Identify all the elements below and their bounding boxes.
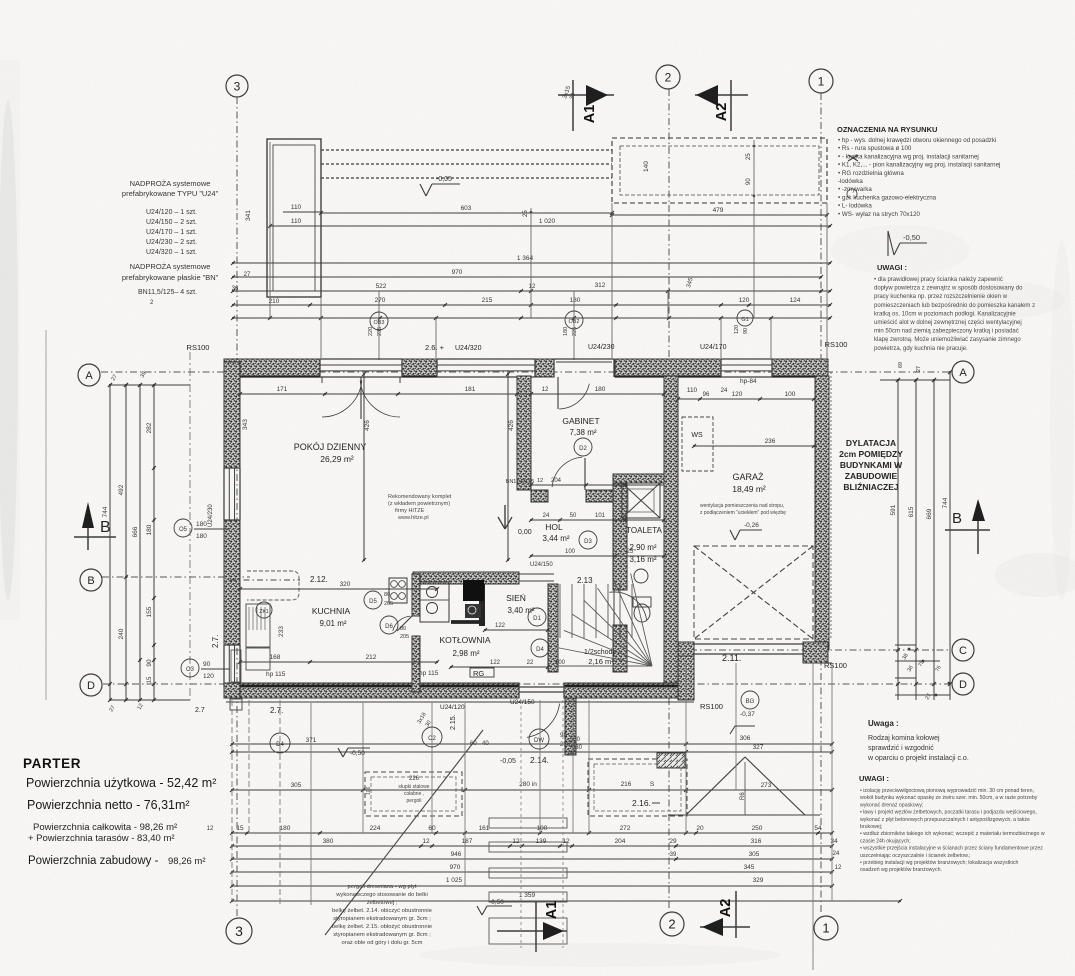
door gabinet top opening: [554, 358, 614, 360]
dylatacja gap line: [830, 372, 832, 640]
terrace steps: [489, 818, 567, 828]
G5 bubble left: [174, 519, 192, 537]
level -0,50 bottom: [487, 905, 512, 907]
double door swing pokoj: [360, 377, 362, 419]
garage step below: [678, 656, 694, 700]
garage bottom corner right: [803, 642, 828, 663]
interior wall pokoj/gabinet: [517, 376, 531, 490]
left dim vertical 282/180/155/90: [153, 385, 155, 700]
WS shaft: [682, 417, 713, 471]
C3 bubble left: [181, 659, 199, 677]
scan smudge patches: [945, 282, 1065, 318]
door kuchnia-kotlownia swing: [397, 616, 412, 631]
left tiny ticks bottom: [110, 699, 190, 701]
section arrow A2 top: [695, 94, 748, 96]
right B arrow: [972, 499, 985, 521]
OB3 bubble: [370, 312, 388, 330]
axis A horizontal grid line: [101, 371, 952, 373]
extra top vertical refs: [320, 297, 322, 358]
section arrow A1 bottom: [535, 902, 537, 952]
top dim line 1364: [233, 262, 830, 264]
door toaleta swing: [613, 590, 615, 625]
right bottom tick lines: [895, 644, 916, 646]
left margin dash line: [189, 352, 191, 700]
bottom wall outer face line: [226, 701, 694, 703]
entrance door swing: [527, 704, 560, 738]
left tiny ticks top: [110, 384, 190, 386]
axis 3 top marker: [226, 75, 248, 97]
left dim vertical 492/240: [125, 385, 127, 700]
interior wall kotlownia/kuchnia lower: [412, 636, 420, 692]
garage dims: [678, 398, 814, 400]
interior wall kotlownia/kuchnia upper: [412, 574, 420, 616]
level flag -0,50: [900, 242, 927, 244]
kitchen counter dashed: [247, 571, 299, 600]
outer wall bottom band left: [240, 683, 519, 698]
bottom vertical refs: [279, 700, 281, 905]
stairs steps: [559, 584, 561, 638]
axis 3 bottom marker: [226, 918, 252, 944]
top dim line 970: [233, 276, 821, 278]
garage right wall: [815, 376, 829, 650]
outer wall left lower corner: [224, 686, 240, 698]
window left 2: [224, 644, 240, 646]
top dim line 270 215 180: [233, 304, 830, 306]
outer wall bottom band right: [564, 683, 682, 698]
top dim line 603: [321, 212, 612, 214]
kotlownia counter: [420, 582, 449, 622]
wc toilet: [633, 597, 651, 607]
bottom dim row 1025: [232, 885, 832, 887]
chimney block top-left: [267, 139, 321, 297]
left dim vertical 666: [139, 385, 141, 700]
pergola rect right: [588, 759, 687, 816]
section arrow A2 bottom: [735, 891, 737, 938]
outer wall top segment 1: [224, 359, 320, 377]
outer wall bottom left piece: [224, 683, 240, 698]
garage bottom outer line: [803, 662, 832, 664]
top dim line 522 312: [233, 290, 830, 292]
garage cross dashed: [694, 546, 813, 639]
outer wall top segment 3: [535, 359, 554, 377]
sien black wall: [479, 584, 485, 626]
lintel over hol opening: [519, 573, 554, 575]
outer wall top segment 2: [402, 359, 437, 377]
terrace dotted edge lines: [321, 149, 612, 151]
corner step detail: [230, 699, 242, 710]
left B arrow: [82, 502, 94, 528]
stairs fan: [557, 665, 652, 667]
sien dims: [485, 629, 548, 631]
bottom dim 305/280/216: [232, 789, 832, 791]
roof triangle right: [686, 757, 745, 815]
entrance door opening: [519, 686, 564, 688]
top wall interior face: [224, 375, 320, 377]
axis 2 top marker: [656, 65, 680, 89]
left margin line: [45, 330, 47, 700]
leader diagonal: [325, 730, 483, 935]
D4 bubble bottom: [270, 733, 290, 753]
axis B left marker: [80, 569, 102, 591]
axis 1 bottom marker: [814, 916, 838, 940]
axis 1 top marker: [809, 69, 833, 93]
top dim line 1020: [270, 225, 830, 227]
pokoj interior dims: [240, 393, 664, 395]
-0,50 flag mid: [348, 747, 370, 749]
axis D left marker: [80, 674, 102, 696]
axis D right marker: [952, 673, 974, 695]
entry arrow 0.00: [504, 505, 506, 529]
kitchen hob: [389, 578, 407, 603]
C2 bubble bottom: [422, 727, 442, 747]
garage door opening bottom: [694, 643, 803, 645]
dashed slab top-right: [612, 138, 827, 203]
axis A left marker: [78, 364, 100, 386]
terrace edge vertical line: [812, 663, 814, 970]
bottom dim row 970: [232, 871, 832, 873]
axis D horizontal grid line: [103, 683, 951, 685]
boiler black: [463, 580, 484, 601]
kitchen cabinets: [246, 604, 270, 647]
interior wall toaleta left upper: [613, 483, 627, 590]
right dims verticals: [897, 380, 899, 700]
door swing gabinet: [557, 377, 559, 409]
washbasin: [634, 569, 648, 583]
D5 bubble kuchnia: [364, 591, 382, 609]
axis 1 vertical grid line: [820, 93, 822, 912]
interior wall gabinet bottom right: [586, 490, 625, 502]
axis 3 vertical grid line: [236, 97, 238, 917]
shower: [622, 483, 660, 518]
sien/schody wall: [548, 584, 558, 672]
outer wall left mid: [224, 520, 240, 645]
vertical ref lines top: [269, 142, 271, 318]
pergola rect left: [365, 772, 462, 816]
outer wall top segment 4: [615, 359, 721, 377]
section arrow A1 top: [558, 94, 614, 96]
interior wall toaleta left lower: [613, 625, 627, 672]
OB2 bubble: [565, 311, 583, 329]
right top ticks: [880, 379, 950, 381]
axis C right marker: [952, 639, 974, 661]
axis 2 vertical grid line: [668, 89, 670, 911]
D bubbles interior: [574, 438, 592, 456]
interior wall toaleta top: [613, 474, 664, 483]
level flag -0,05: [432, 183, 460, 185]
garage level -0,26: [740, 529, 762, 531]
black block right pergola: [657, 753, 685, 768]
bottom dim line 306/327: [232, 743, 832, 745]
left dim vertical 744: [109, 385, 111, 700]
bottom dim row 1359: [232, 900, 900, 902]
porch guide lines: [520, 700, 522, 948]
top vertical dim 25: [530, 211, 533, 214]
legend small symbols: [848, 155, 858, 161]
bottom dim row 15 180 224 ...: [232, 832, 832, 834]
hol dims: [531, 555, 664, 557]
bottom dim row 946: [232, 858, 832, 860]
DW bubble bottom: [529, 729, 549, 749]
porch pillar below entrance: [565, 698, 576, 755]
kuchnia dims: [240, 661, 437, 663]
window left 1: [224, 467, 240, 469]
gabinet dims: [531, 484, 664, 486]
garage bottom wall left stub: [678, 642, 694, 656]
garage window top: [721, 358, 772, 360]
bottom wall inner dark line: [240, 685, 519, 688]
bottom dim row 380 12 187 ...: [232, 845, 832, 847]
top dim line small: [233, 317, 830, 319]
window pokoj top 2: [437, 358, 535, 360]
interior wall kuchnia/sien top: [413, 572, 519, 584]
axis B horizontal grid line: [102, 576, 250, 578]
RG box: [470, 668, 494, 677]
axis A right marker: [952, 361, 974, 383]
axis C horizontal grid line: [690, 649, 951, 651]
G1 bubble: [737, 310, 753, 326]
BG bubble: [741, 691, 759, 709]
interior wall gabinet bottom left: [531, 490, 548, 502]
window pokoj top: [320, 358, 402, 360]
door gabinet-hol swing: [584, 458, 586, 490]
outer wall top segment 5 (garage): [772, 359, 828, 377]
wall house-garage divider: [664, 376, 678, 683]
bottom-left vertical refs: [231, 700, 233, 902]
axis 2 bottom marker: [660, 912, 684, 936]
outer wall left upper: [224, 362, 240, 468]
